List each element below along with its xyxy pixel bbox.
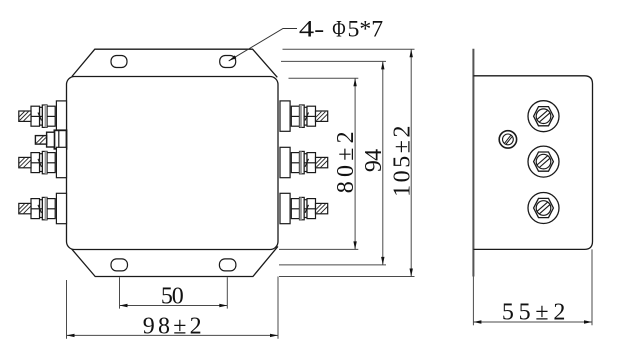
hatch stud L3 — [19, 204, 31, 214]
svg-text:94: 94 — [361, 149, 387, 172]
mounting hole top-right — [220, 56, 236, 68]
extension line left (flange line continues) — [472, 277, 474, 326]
terminal L-gnd (ground, small) — [35, 130, 66, 149]
dimension line 50 — [119, 305, 227, 307]
svg-text:5*7: 5*7 — [348, 17, 384, 42]
terminal R3 (load) — [280, 193, 328, 223]
terminal face 1 (side view) — [528, 101, 559, 132]
arrows 105±2 — [410, 49, 413, 57]
terminal face 3 (side view) — [528, 193, 559, 224]
dimension line 80±2 — [354, 78, 356, 249]
side body outline — [473, 76, 592, 250]
hatch stud L-gnd — [36, 136, 46, 144]
dimension line 94 — [382, 61, 384, 265]
terminal L3 (line) — [19, 193, 67, 223]
mounting hole top-left — [111, 56, 127, 68]
extension line right — [591, 249, 593, 325]
leader line for hole note — [229, 29, 297, 61]
mounting hole bottom-left — [111, 259, 128, 271]
arrows 98±2 — [67, 334, 75, 337]
hatch stud R2 — [316, 158, 328, 168]
flange plate edge-on — [472, 49, 474, 277]
hatch stud R3 — [316, 204, 328, 214]
mounting hole bottom-right — [219, 259, 236, 271]
svg-text:Φ: Φ — [332, 17, 346, 42]
svg-text:50: 50 — [161, 284, 184, 310]
dimension line 98±2 — [67, 334, 279, 336]
extension line 98 right — [277, 277, 279, 339]
hatch stud L1 — [19, 112, 31, 122]
extension line top for 80±2 — [289, 77, 359, 79]
ground terminal face (side view) — [499, 131, 516, 148]
terminal face 2 (side view) — [528, 146, 559, 177]
filter body (rounded rectangle) — [67, 77, 279, 250]
terminal R1 (load) — [280, 101, 328, 131]
extension line 50 right — [226, 277, 228, 308]
dimension line 105±2 — [410, 49, 412, 276]
arrowheads left view — [67, 49, 413, 337]
arrows 50 — [120, 304, 128, 307]
arrows 80±2 — [353, 78, 356, 86]
hatch stud L2 — [19, 158, 31, 168]
svg-text:4-: 4- — [299, 17, 324, 42]
extension line top for 105±2 — [283, 48, 415, 50]
svg-text:105±2: 105±2 — [390, 126, 416, 197]
extension line bottom for 94 — [279, 264, 386, 266]
leader arrowhead — [229, 55, 237, 61]
extension line 98 left — [66, 280, 68, 339]
terminal L2 (line) — [19, 147, 67, 177]
extension line bottom for 105±2 — [279, 276, 415, 278]
arrows 55±2 — [473, 320, 592, 323]
terminal L1 (line) — [19, 101, 67, 131]
extension line top for 94 — [281, 60, 386, 62]
terminal R2 (load) — [280, 147, 328, 177]
extension line 50 left — [119, 277, 121, 308]
mounting flange plate (octagon) — [72, 49, 277, 77]
dimension line 55±2 — [473, 321, 592, 323]
arrows 94 — [381, 61, 384, 69]
hatch stud R1 — [316, 112, 328, 122]
extension line bottom for 80±2 — [279, 248, 358, 250]
mounting flange plate bottom chamfered edge — [70, 246, 278, 276]
